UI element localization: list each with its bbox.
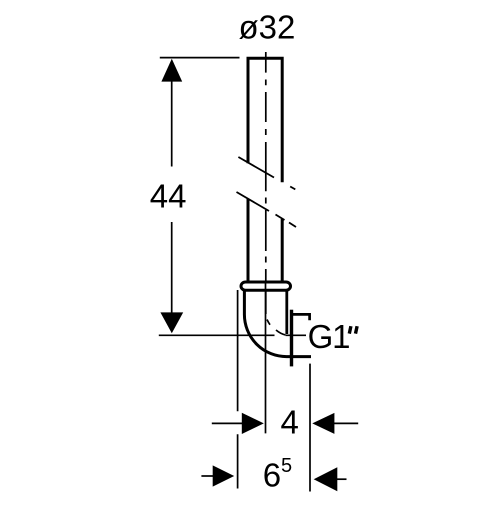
thread bracket top [292, 314, 310, 320]
pipe break line upper [238, 157, 295, 189]
svg-text:G: G [308, 318, 334, 355]
elbow inner right edge [285, 291, 288, 334]
pipe centerline (dash-dot) [265, 52, 267, 314]
dim 44 vertical line upper [171, 81, 173, 167]
dim 44 vertical line lower [171, 222, 173, 313]
elbow socket collar [241, 282, 291, 290]
dim 4 right leader [334, 422, 358, 424]
pipe lower segment left edge [247, 199, 250, 281]
dim 44 top reference line [160, 57, 240, 59]
svg-text:5: 5 [281, 455, 292, 477]
dim 44 arrow up [161, 59, 182, 82]
svg-text:ø32: ø32 [239, 9, 296, 46]
svg-text:4: 4 [281, 403, 299, 440]
extension line C outlet face [309, 364, 311, 492]
pipe break line lower [237, 192, 297, 227]
dim 44 arrow down [160, 312, 183, 333]
outlet flange bar [290, 310, 293, 367]
dim 65 left leader [201, 475, 213, 477]
elbow body with outer curve and outlet bottom [244, 291, 311, 357]
pipe lower segment right edge [281, 219, 284, 281]
dim 4 left arrow [242, 413, 264, 434]
dim 65 right leader [337, 478, 347, 480]
extension line A from elbow left [237, 290, 239, 489]
dim 4 right arrow [312, 413, 334, 434]
dim 65 left arrow [213, 465, 235, 486]
label inch marks [349, 326, 357, 333]
svg-text:1: 1 [332, 318, 350, 355]
svg-text:6: 6 [263, 457, 281, 494]
extension line B pipe axis [265, 282, 267, 433]
dim 65 right arrow [314, 467, 338, 491]
svg-text:44: 44 [150, 177, 187, 214]
dim 4 left leader [212, 422, 243, 424]
outlet horizontal centerline [159, 334, 306, 336]
elbow centerline arc dashes [267, 320, 285, 335]
pipe upper segment outline [248, 58, 282, 182]
